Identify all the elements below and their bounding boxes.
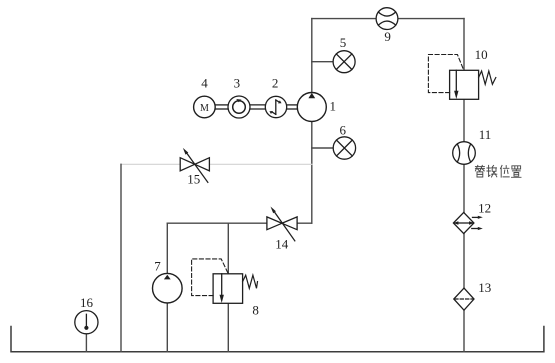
throttle valve 14 (267, 207, 297, 241)
svg-text:7: 7 (154, 258, 161, 273)
torque meter 2 (265, 96, 286, 117)
svg-text:13: 13 (478, 280, 491, 295)
pump 7 (153, 273, 183, 303)
pump 1 (297, 93, 326, 122)
shaft 3-2 (250, 105, 265, 109)
pressure gauge 6 (333, 137, 355, 159)
throttle valve 15 (180, 148, 209, 182)
shaft 2-1 (287, 105, 298, 109)
wire pump 7 riser and drop (166, 223, 168, 352)
thermometer 16 (75, 311, 98, 334)
wire top horizontal (312, 18, 464, 20)
note 替换位置 (475, 165, 521, 177)
coupling 3 (228, 96, 250, 118)
relief valve 10 (450, 70, 479, 99)
svg-text:14: 14 (275, 236, 289, 251)
spring valve 10 (479, 71, 496, 84)
wire thermometer drop (85, 334, 87, 352)
svg-text:15: 15 (187, 172, 200, 187)
shaft 4-3 (215, 105, 228, 109)
wire gauge 5 stub (312, 61, 333, 63)
svg-text:16: 16 (80, 295, 94, 310)
wire right vertical (463, 19, 465, 352)
svg-text:12: 12 (478, 201, 491, 216)
flow meter 9 (376, 8, 398, 30)
spring valve 8 (243, 275, 258, 288)
pilot line valve 8 (192, 259, 229, 296)
relief valve 8 (213, 274, 243, 304)
pilot line valve 10 (428, 55, 463, 93)
flow meter 11 (453, 142, 476, 165)
svg-text:M: M (200, 103, 209, 114)
tank (11, 327, 544, 352)
svg-text:1: 1 (330, 99, 337, 114)
svg-text:9: 9 (384, 29, 391, 44)
svg-text:10: 10 (475, 47, 488, 62)
svg-text:8: 8 (252, 303, 259, 318)
wire light suction line (121, 163, 312, 165)
filter 13 (454, 288, 474, 310)
svg-text:3: 3 (234, 76, 241, 91)
svg-text:2: 2 (272, 76, 279, 91)
wire main vertical pump1 line (311, 19, 313, 224)
wire gauge 6 stub (312, 147, 333, 149)
wire left vertical to tank (120, 164, 122, 351)
cooler 12 (453, 212, 483, 233)
svg-text:11: 11 (479, 127, 492, 142)
pressure gauge 5 (333, 51, 355, 73)
motor 4 (194, 96, 216, 118)
wire horizontal y222 (167, 222, 311, 224)
wire valve 8 branch (227, 223, 229, 352)
svg-text:6: 6 (339, 123, 346, 138)
svg-text:4: 4 (201, 76, 208, 91)
svg-text:5: 5 (340, 35, 347, 50)
